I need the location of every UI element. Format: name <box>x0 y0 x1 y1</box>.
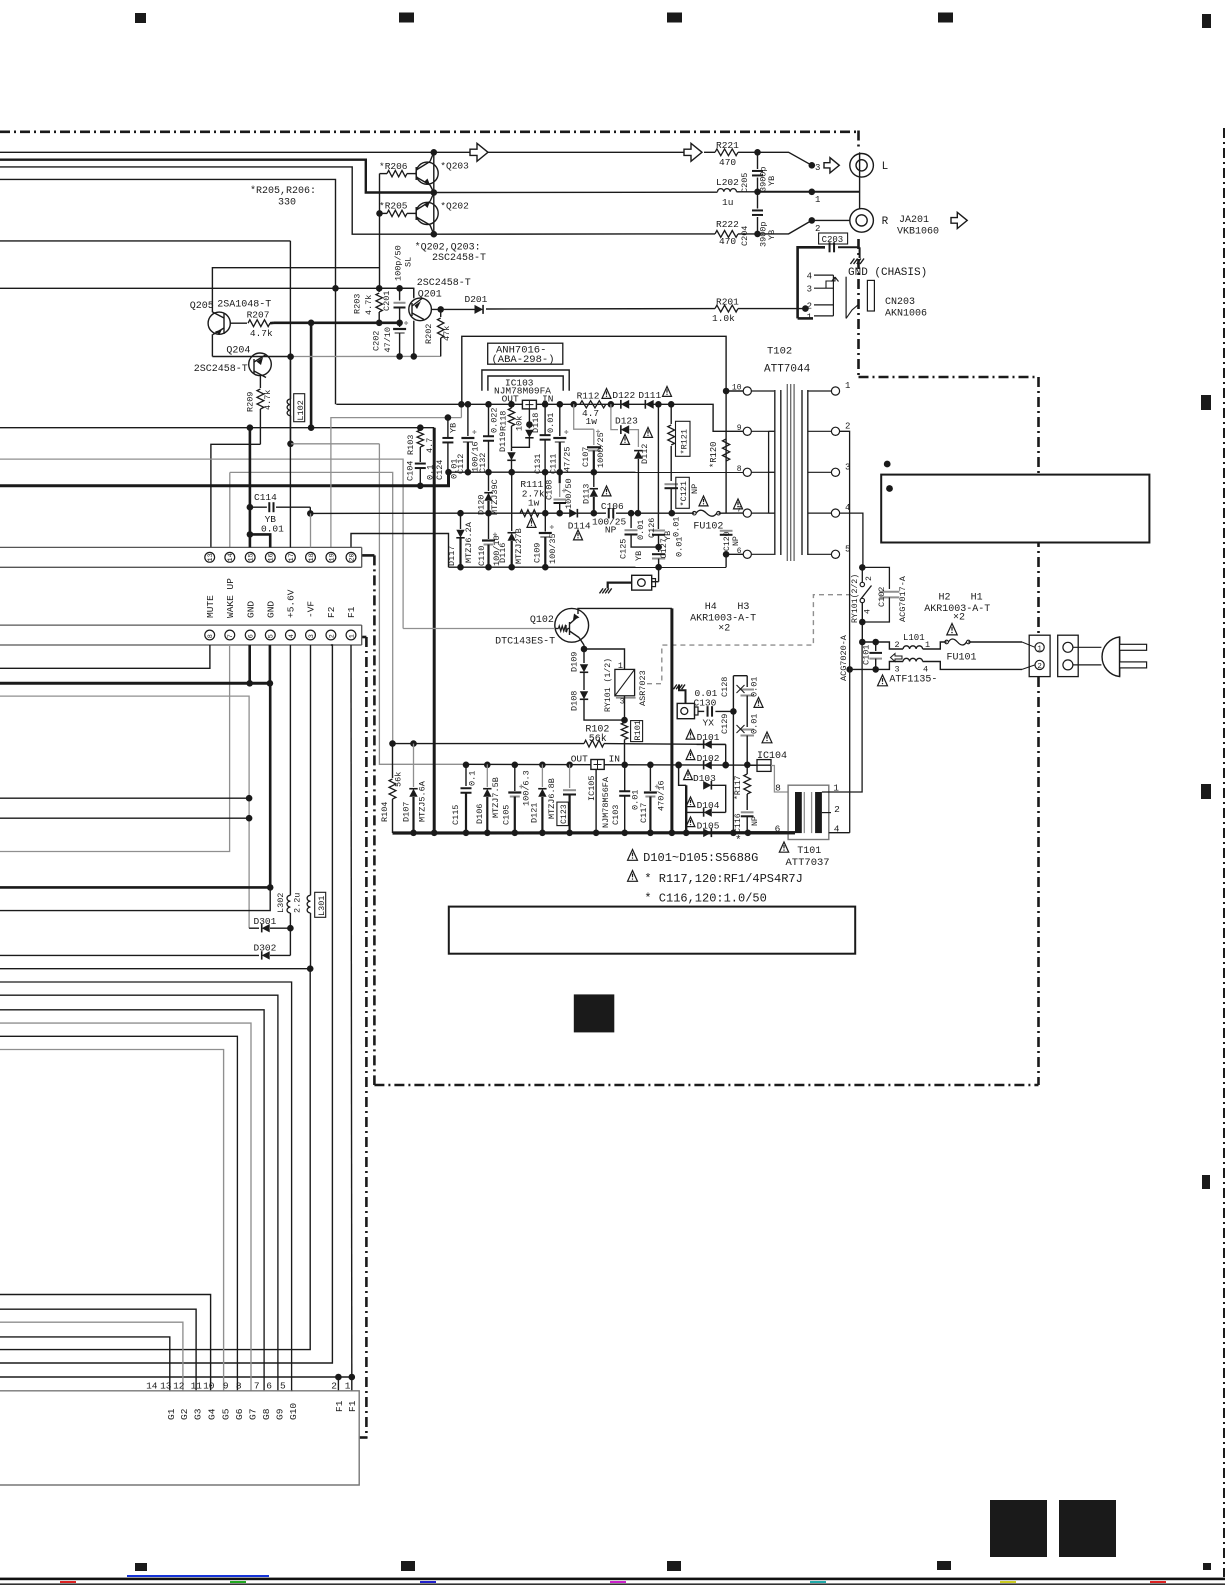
svg-text:1: 1 <box>925 640 930 650</box>
inductor L301 <box>307 895 310 913</box>
display grid wire G4 <box>0 1295 211 1391</box>
wire -VF gray row 458 to Q102 base column <box>0 459 403 628</box>
registration mark bottom 2 <box>401 1561 415 1571</box>
svg-text:3: 3 <box>807 285 812 295</box>
resistor R201 <box>715 305 738 312</box>
warning triangle below D114 <box>573 530 582 540</box>
dashed relay drive link <box>647 595 853 684</box>
svg-text:C126: C126 <box>647 518 657 538</box>
svg-text:5: 5 <box>280 1381 286 1392</box>
rail2 rectifier rail <box>449 471 744 473</box>
svg-text:1w: 1w <box>586 416 598 427</box>
svg-text:1.0k: 1.0k <box>712 313 735 324</box>
capacitor C114 <box>250 506 267 508</box>
svg-text:*Q202: *Q202 <box>440 201 469 212</box>
regulator IC105 body <box>591 760 604 770</box>
T102 core lines <box>786 384 788 561</box>
svg-text:IN: IN <box>609 754 620 765</box>
transistor Q102 digital <box>555 608 589 642</box>
warning triangle near D122 <box>602 389 611 399</box>
dash-dot page border right edge <box>1223 128 1225 1577</box>
diode D111 <box>645 400 653 409</box>
diodes D109 D108 chain <box>583 649 585 663</box>
svg-text:16: 16 <box>268 553 276 561</box>
diode D123 <box>611 404 618 429</box>
svg-text:C112: C112 <box>456 454 466 474</box>
svg-text:D101: D101 <box>697 732 720 743</box>
inductor L102 feed from pin17 column <box>290 357 292 399</box>
T102 winding bars right <box>801 390 803 555</box>
warning triangle near C129 <box>754 698 763 708</box>
diode D119 <box>511 447 513 451</box>
svg-text:1: 1 <box>807 312 812 322</box>
capacitor C105 electrolytic <box>514 764 516 791</box>
svg-text:17: 17 <box>288 553 296 561</box>
wire row 818 <box>0 817 249 819</box>
svg-text:GND (CHASIS): GND (CHASIS) <box>848 267 927 279</box>
svg-text:3: 3 <box>815 163 820 173</box>
svg-text:YB: YB <box>767 176 777 186</box>
diode ladder D104 <box>704 808 712 817</box>
svg-text:G4: G4 <box>207 1408 218 1420</box>
choke L101 bottom winding <box>876 662 903 670</box>
pin7 wire down <box>0 645 230 852</box>
node 427 R103 <box>417 424 424 431</box>
svg-text:8: 8 <box>775 783 781 794</box>
wire D111 column <box>657 404 659 527</box>
T102 bus from rail0 with R120 <box>725 391 727 513</box>
node pin15/16 jog <box>247 531 254 538</box>
svg-text:R209: R209 <box>246 392 256 412</box>
svg-text:3: 3 <box>895 665 900 675</box>
svg-text:ACG7020-A: ACG7020-A <box>839 634 849 681</box>
svg-text:D107: D107 <box>402 802 412 822</box>
connector strip lower <box>0 624 362 626</box>
svg-text:R: R <box>882 216 889 228</box>
bullet note 2 <box>886 485 893 492</box>
svg-text:×2: ×2 <box>953 613 965 624</box>
svg-text:G9: G9 <box>275 1408 286 1420</box>
transistor Q202 <box>416 202 438 224</box>
rail2 junction dots <box>445 469 452 476</box>
node C101 top <box>872 639 879 646</box>
capacitor C201 <box>399 288 401 300</box>
inductor L202 <box>718 189 737 192</box>
resistor R202 <box>440 309 442 317</box>
svg-text:D108: D108 <box>570 691 580 711</box>
zener D121 <box>541 764 543 787</box>
connector pins 13-20 circled <box>205 552 215 562</box>
resistor R111 in rail3 <box>520 510 539 517</box>
svg-text:0.01: 0.01 <box>750 714 760 734</box>
svg-text:12: 12 <box>173 1381 185 1392</box>
ACG7020 line to T101 pin4 <box>849 513 851 669</box>
wire row 4 to R205/R206 bias <box>0 179 336 404</box>
svg-text:1: 1 <box>348 634 356 638</box>
svg-text:ATT7037: ATT7037 <box>786 857 830 869</box>
svg-text:1: 1 <box>1037 645 1042 653</box>
svg-text:R202: R202 <box>424 324 434 344</box>
inductor L302 <box>287 895 290 913</box>
svg-text:470/16: 470/16 <box>657 780 667 811</box>
T102 secondary bus pin2 to pin4 <box>840 431 850 513</box>
pin3 column lower to display <box>0 969 310 1350</box>
svg-text:C102: C102 <box>877 587 887 607</box>
svg-text:6: 6 <box>266 1381 272 1392</box>
wire Q201 emitter <box>413 321 415 357</box>
chassis hatch lower <box>608 588 612 593</box>
svg-text:MTZJ7.5B: MTZJ7.5B <box>491 777 501 818</box>
gray frame wire 696 <box>0 696 249 928</box>
thick link D103-D105 <box>685 785 687 833</box>
wire Q102 emitter to relay <box>579 638 584 646</box>
label L301 boxed <box>315 892 326 917</box>
svg-text:C101: C101 <box>862 645 872 665</box>
svg-text:+5.6V: +5.6V <box>286 589 297 618</box>
signal arrow 1 <box>470 143 488 161</box>
svg-text:2.2u: 2.2u <box>293 893 303 913</box>
node C114 right rail3 <box>307 510 314 517</box>
node rail485 C104 <box>417 483 424 490</box>
svg-text:R201: R201 <box>716 297 739 308</box>
registration mark right 1 <box>1202 14 1211 28</box>
T102 pin4 wire to relay branch <box>840 513 863 567</box>
T101 pin4 wire <box>829 832 850 834</box>
svg-text:F1: F1 <box>346 606 357 618</box>
svg-text:YB: YB <box>767 230 777 240</box>
capacitor C131 <box>544 404 546 435</box>
RCA jack R JA201 <box>850 209 874 233</box>
capacitor C132 <box>488 404 490 436</box>
capacitor C203 with frame wire <box>798 247 825 318</box>
resistor R203 <box>378 288 380 292</box>
node C130 right <box>730 708 737 715</box>
svg-text:2SC2458-T: 2SC2458-T <box>432 253 486 264</box>
capacitor C125 <box>630 513 632 528</box>
rail1 9V rail <box>336 404 743 431</box>
svg-text:C130: C130 <box>694 698 717 709</box>
svg-text:C104: C104 <box>406 461 416 481</box>
zener D120 <box>488 472 490 491</box>
svg-text:100/6.3: 100/6.3 <box>522 770 532 806</box>
display grid wire G7 <box>0 1023 251 1391</box>
svg-text:L302: L302 <box>276 893 286 913</box>
svg-text:1: 1 <box>345 1381 351 1392</box>
svg-text:Q205: Q205 <box>190 301 214 312</box>
dash-dot border display unit vertical <box>365 637 368 1438</box>
svg-text:C129: C129 <box>720 714 730 734</box>
black square page-number block 1 <box>990 1500 1047 1557</box>
svg-text:H4: H4 <box>705 602 717 613</box>
dash-dot border right upper segment <box>857 131 860 150</box>
svg-text:C109: C109 <box>533 543 543 563</box>
svg-text:C108: C108 <box>545 480 555 500</box>
rail5b regulated 56V rail <box>466 763 771 766</box>
svg-text:9: 9 <box>737 424 742 433</box>
capacitor C126 <box>657 528 659 530</box>
svg-text:R103: R103 <box>406 435 416 455</box>
thick pin15 column <box>249 428 252 548</box>
wire Q205 emitter down <box>211 334 213 356</box>
node rail4 D107 <box>410 740 417 747</box>
svg-text:470: 470 <box>719 157 736 168</box>
svg-text:H3: H3 <box>737 602 749 613</box>
svg-text:8: 8 <box>236 1381 242 1392</box>
wire row 5 to Q201 <box>0 288 414 297</box>
svg-text:F1: F1 <box>334 1400 345 1412</box>
diode ladder D105 <box>703 829 711 838</box>
svg-text:13: 13 <box>160 1381 172 1392</box>
T102 pin circles right <box>831 387 839 395</box>
registration mark right 4 <box>1202 1175 1210 1189</box>
resistor R120 on bus <box>723 439 730 461</box>
svg-text:0.01: 0.01 <box>750 677 760 697</box>
pin4 column to L302 <box>289 645 291 895</box>
svg-text:1w: 1w <box>528 498 540 509</box>
rail5 -V return <box>449 566 727 568</box>
bullet note 1 <box>884 461 891 468</box>
transistor Q205 <box>208 312 230 334</box>
svg-text:330: 330 <box>278 198 296 209</box>
wire R209 to pin13 mute <box>211 444 261 547</box>
svg-text:C114: C114 <box>254 492 277 503</box>
resistor R206 <box>387 170 407 176</box>
svg-text:47/25: 47/25 <box>563 446 573 472</box>
svg-text:C107: C107 <box>581 447 591 467</box>
svg-text:*R205: *R205 <box>379 201 408 212</box>
wire row 798 <box>0 797 249 799</box>
svg-text:D120: D120 <box>477 495 487 515</box>
wire 417 up to rail1 <box>460 404 462 417</box>
resistor R222 <box>715 231 738 238</box>
svg-text:R101: R101 <box>633 720 643 740</box>
node relay top <box>859 564 866 571</box>
svg-text:4.7k: 4.7k <box>263 390 273 410</box>
rail5b junction dots <box>463 762 470 769</box>
dash-dot border top (power unit) <box>0 131 859 134</box>
svg-text:D201: D201 <box>465 294 488 305</box>
svg-text:D116: D116 <box>498 543 508 563</box>
svg-text:ATT7044: ATT7044 <box>764 364 811 376</box>
resistor R112 <box>580 401 606 408</box>
svg-text:7: 7 <box>254 1381 260 1392</box>
RCA jack L JA201 <box>850 154 874 178</box>
svg-text:D123: D123 <box>615 416 638 427</box>
svg-text:G8: G8 <box>261 1408 272 1420</box>
svg-text:*R117: *R117 <box>733 775 743 800</box>
svg-text:MUTE: MUTE <box>205 595 216 618</box>
rail3 right segment <box>616 512 694 514</box>
transformer T101 box <box>788 785 829 839</box>
warning triangle T101 <box>779 842 788 852</box>
X-cap column wires <box>732 676 734 833</box>
thick wire to chassis <box>608 583 632 589</box>
display grid wire G2 <box>0 1322 183 1390</box>
registration mark top 3 <box>667 13 682 23</box>
wire Q102 base from -VF <box>403 628 555 630</box>
svg-text:DTC143ES-T: DTC143ES-T <box>495 637 555 648</box>
pin8 wire down-left <box>0 645 210 668</box>
capacitor C124 <box>447 418 449 438</box>
capacitor C115 <box>465 764 467 786</box>
registration mark bottom 3 <box>667 1561 681 1571</box>
svg-text:*Q202,Q203:: *Q202,Q203: <box>415 242 481 254</box>
node L101 top <box>859 639 866 646</box>
svg-text:T101: T101 <box>797 846 821 857</box>
IC104 to T101 pin8 <box>771 766 788 793</box>
rail3 junction dots <box>457 510 464 517</box>
wire pin19 to 417 row <box>331 418 462 548</box>
rail0 top wire of regulator block <box>462 336 726 404</box>
relay RY101(2/2) contact <box>861 567 863 582</box>
IC103 outline brackets <box>482 370 569 391</box>
svg-text:D122: D122 <box>612 390 635 401</box>
resistor R101 <box>621 723 627 740</box>
label R121 boxed <box>676 421 691 456</box>
resistor R117 <box>744 774 751 794</box>
black square marker mid-page <box>574 994 615 1032</box>
registration mark top 1 <box>135 13 146 23</box>
chassis hatch upper <box>682 685 685 690</box>
wire row 427 bus <box>0 427 434 429</box>
svg-text:L: L <box>882 161 889 173</box>
warning triangle near C121 <box>699 496 708 506</box>
capacitor C117 electrolytic <box>649 765 651 791</box>
svg-text:19: 19 <box>328 553 336 561</box>
wire Q203 collector <box>430 152 434 161</box>
empty note box right <box>881 475 1149 543</box>
svg-text:D301: D301 <box>254 916 277 927</box>
transistor Q203 <box>416 162 438 184</box>
rail5 drop to chassis screw <box>658 567 660 581</box>
node rail4 R104 <box>389 740 396 747</box>
resistor R207 <box>230 322 247 324</box>
node C114 left <box>247 504 254 511</box>
svg-text:FU102: FU102 <box>693 522 723 533</box>
svg-text:1: 1 <box>845 381 850 391</box>
svg-text:8: 8 <box>207 634 215 638</box>
rail4 wake rail <box>393 743 584 745</box>
node R207/R203 <box>376 320 383 327</box>
svg-text:×2: ×2 <box>718 624 730 635</box>
svg-text:100/50: 100/50 <box>564 478 574 509</box>
svg-text:13: 13 <box>207 553 215 561</box>
node C205 top <box>754 149 761 156</box>
wire L-out top <box>0 151 684 153</box>
svg-text:CN203: CN203 <box>885 297 915 308</box>
wire FU101 to plug <box>968 641 1022 643</box>
node C201/C202 col <box>396 320 403 327</box>
capacitor C106 in rail3 <box>608 508 610 519</box>
resistor R205 <box>387 210 407 216</box>
display grid wire G8 <box>0 1010 264 1391</box>
svg-text:4: 4 <box>864 609 873 614</box>
capacitor C127 <box>658 547 660 552</box>
diode D301 <box>249 927 259 929</box>
zener D116 <box>511 472 513 531</box>
dash-dot border left vertical (power unit) <box>373 555 376 1085</box>
svg-text:D117: D117 <box>447 546 457 566</box>
wire row 240 from left edge <box>0 240 290 242</box>
svg-text:FU101: FU101 <box>947 653 977 664</box>
svg-text:L101: L101 <box>903 633 925 643</box>
wire D301-D302 link <box>289 928 291 955</box>
svg-text:4: 4 <box>807 272 812 282</box>
T102 pin stubs left <box>742 390 744 392</box>
svg-text:H2: H2 <box>939 593 951 604</box>
svg-text:*R121: *R121 <box>680 429 690 455</box>
resistor R209 <box>257 389 264 409</box>
capacitor C128 X <box>741 689 755 691</box>
T102 winding bars left <box>774 390 776 555</box>
svg-text:YB: YB <box>449 423 459 433</box>
svg-text:4: 4 <box>288 634 296 638</box>
node thick to pin18 column <box>308 320 315 327</box>
node wire5 R203 <box>376 285 383 292</box>
svg-text:470: 470 <box>719 236 736 247</box>
node 968 junction <box>307 965 314 972</box>
svg-text:5: 5 <box>268 634 276 638</box>
pin6 column stub <box>248 645 251 683</box>
wire relay branch down <box>861 622 863 642</box>
node RCA L pin 3 <box>809 162 816 169</box>
svg-text:YB: YB <box>634 551 644 561</box>
capacitor C123 <box>569 764 571 788</box>
warning triangle below D123 <box>620 435 629 445</box>
node RCA pin 2 <box>809 217 816 224</box>
svg-text:JA201: JA201 <box>899 215 929 226</box>
display grid wire G6 <box>0 1036 237 1390</box>
AC connector block 2 <box>1058 635 1079 676</box>
thick jog rail485 to rail2 <box>434 472 448 486</box>
svg-text:*R206: *R206 <box>379 161 408 172</box>
svg-text:11: 11 <box>191 1381 203 1392</box>
pin1 column down <box>350 645 353 1377</box>
node bias/wire5 junction <box>332 285 339 292</box>
registration mark bottom 4 <box>937 1561 951 1570</box>
thick jog to pin16 <box>250 534 270 547</box>
wire jack common vertical <box>859 152 861 208</box>
connector pins 8-1 circled <box>205 630 215 640</box>
svg-text:D103: D103 <box>693 773 716 784</box>
svg-text:C204: C204 <box>740 226 750 246</box>
svg-text:G6: G6 <box>234 1408 245 1420</box>
svg-text:0.01: 0.01 <box>675 537 685 557</box>
note D101-D105 <box>628 850 638 861</box>
svg-text:C201: C201 <box>382 291 392 311</box>
resistor R221 <box>715 149 738 156</box>
zener D107 <box>413 744 415 787</box>
svg-text:NP: NP <box>690 484 700 494</box>
warning triangle AC side <box>947 624 957 635</box>
svg-text:G7: G7 <box>247 1409 258 1420</box>
capacitor C109 electrolytic <box>544 472 546 531</box>
display grid wire G1 <box>0 1337 170 1391</box>
svg-text:2: 2 <box>834 804 840 815</box>
wire Q203 emitter row to L202 <box>434 191 718 193</box>
wire R205 node down to C201 row <box>379 213 381 288</box>
diode ladder D102 <box>704 761 712 770</box>
wire Q201 to D201 <box>431 308 475 310</box>
wire row 2 to Q203 emitter <box>0 160 434 193</box>
svg-text:-VF: -VF <box>306 601 317 618</box>
svg-text:YB: YB <box>663 531 673 541</box>
svg-text:YX: YX <box>703 718 715 729</box>
wire Q202/Q203 chain vertical <box>433 152 435 234</box>
svg-text:0.1: 0.1 <box>468 771 478 786</box>
svg-text:D102: D102 <box>697 753 720 764</box>
svg-text:2: 2 <box>895 640 900 650</box>
